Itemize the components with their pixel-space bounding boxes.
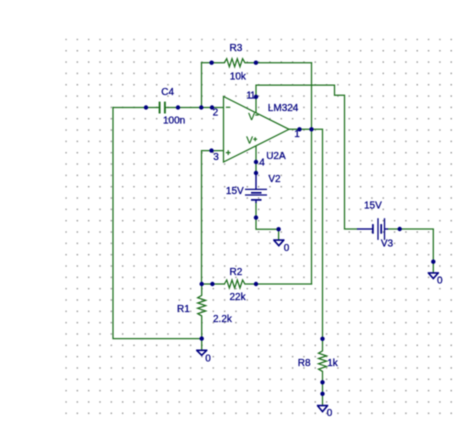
svg-text:0: 0: [205, 353, 211, 364]
svg-text:0: 0: [437, 275, 443, 286]
svg-text:V: V: [248, 112, 255, 123]
svg-text:LM324: LM324: [268, 103, 299, 114]
svg-text:R2: R2: [230, 267, 243, 278]
svg-text:100n: 100n: [163, 115, 185, 126]
svg-text:V2: V2: [268, 174, 281, 185]
svg-text:R3: R3: [230, 43, 243, 54]
svg-text:22k: 22k: [230, 292, 247, 303]
svg-text:C4: C4: [161, 87, 174, 98]
svg-text:0: 0: [284, 243, 290, 254]
svg-text:U2A: U2A: [266, 151, 286, 162]
svg-text:1k: 1k: [327, 358, 339, 369]
svg-text:2: 2: [213, 107, 219, 118]
svg-text:R1: R1: [177, 304, 190, 315]
svg-text:15V: 15V: [226, 186, 244, 197]
svg-text:0: 0: [327, 408, 333, 419]
svg-text:V: V: [246, 135, 253, 146]
svg-text:1: 1: [294, 129, 300, 140]
svg-text:15V: 15V: [364, 200, 382, 211]
svg-text:4: 4: [259, 157, 265, 168]
svg-text:3: 3: [213, 152, 219, 163]
svg-text:V3: V3: [381, 239, 394, 250]
svg-text:10k: 10k: [230, 72, 247, 83]
svg-text:11: 11: [246, 91, 256, 102]
svg-text:2.2k: 2.2k: [213, 314, 233, 325]
svg-text:R8: R8: [298, 358, 311, 369]
